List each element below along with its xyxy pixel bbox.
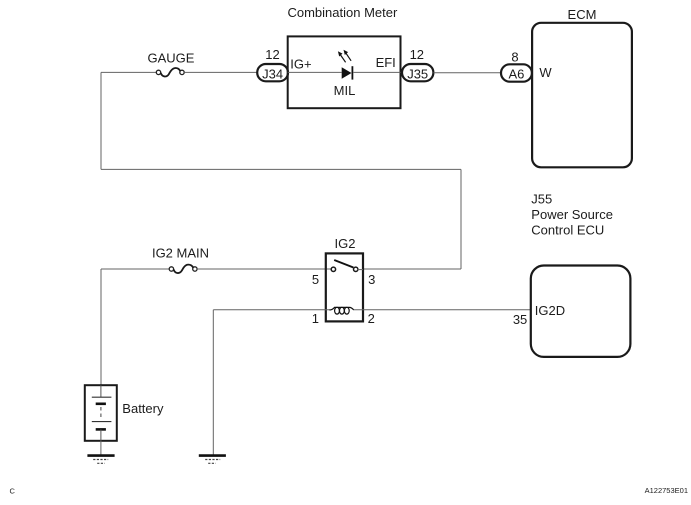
terminal label IG+ <box>290 56 311 71</box>
ECM title <box>568 7 597 22</box>
wire: coil wire left (to ground riser) <box>213 309 330 311</box>
label GAUGE <box>148 50 195 65</box>
svg-text:J55: J55 <box>531 192 552 207</box>
label Battery <box>122 401 164 416</box>
svg-text:EFI: EFI <box>376 55 396 70</box>
svg-text:A6: A6 <box>508 66 524 81</box>
wire: relay pin 3 to riser <box>363 268 461 270</box>
wire: top feed from left riser to fuse GAUGE <box>101 71 157 73</box>
svg-text:2: 2 <box>368 311 375 326</box>
svg-text:5: 5 <box>312 272 319 287</box>
svg-text:Control ECU: Control ECU <box>531 223 604 238</box>
terminal label W <box>539 65 552 80</box>
terminal label IG2D <box>535 303 565 318</box>
svg-text:J34: J34 <box>262 66 283 81</box>
ECM box <box>532 23 632 168</box>
svg-text:Battery: Battery <box>122 401 164 416</box>
wire: left riser top section <box>100 72 102 169</box>
IG2 relay title <box>335 236 356 251</box>
wire: battery riser (IG2 MAIN down to battery) <box>100 269 102 385</box>
connector J34 <box>257 64 288 81</box>
svg-text:Combination Meter: Combination Meter <box>287 5 397 20</box>
pin 12 label (J35) <box>410 47 424 62</box>
wire: LED to EFI side <box>353 71 400 73</box>
wire: coil to J55 IG2D <box>354 309 531 311</box>
pin 12 label (J34) <box>265 47 279 62</box>
svg-text:W: W <box>539 65 552 80</box>
fuse IG2 MAIN <box>169 265 197 273</box>
J55 title block <box>531 192 613 238</box>
relay IG2 box <box>326 253 363 321</box>
wire: inside meter, IG+ to LED <box>288 71 342 73</box>
wire: coil ground riser <box>212 310 214 455</box>
pin 5 label <box>312 272 319 287</box>
battery <box>85 385 117 441</box>
power source control ECU box J55 <box>531 266 631 357</box>
terminal label EFI <box>376 55 396 70</box>
svg-text:12: 12 <box>410 47 424 62</box>
figure number A122753E01 <box>645 486 688 495</box>
connector A6 <box>501 64 532 81</box>
page letter C <box>10 487 16 496</box>
Combination Meter title <box>287 5 397 20</box>
LED MIL (diode with arrows) <box>338 50 353 80</box>
svg-text:35: 35 <box>513 312 527 327</box>
pin 35 label <box>513 312 527 327</box>
pin 1 label <box>312 311 319 326</box>
relay switch contacts <box>331 260 358 271</box>
relay coil <box>330 307 354 314</box>
svg-text:C: C <box>10 487 16 496</box>
svg-text:J35: J35 <box>407 66 428 81</box>
svg-text:1: 1 <box>312 311 319 326</box>
svg-text:8: 8 <box>511 50 518 65</box>
wire: relay right contact to box edge <box>358 269 364 271</box>
svg-text:Power Source: Power Source <box>531 207 613 222</box>
fuse GAUGE <box>156 68 184 76</box>
svg-text:MIL: MIL <box>334 83 356 98</box>
wire: fuse IG2 MAIN to relay pin 5 <box>197 268 331 270</box>
pin 3 label <box>368 272 375 287</box>
wire: J35 to A6 <box>433 72 501 74</box>
label MIL <box>334 83 356 98</box>
label IG2 MAIN <box>152 245 209 260</box>
wire: battery to ground <box>100 441 102 455</box>
pin 2 label <box>368 311 375 326</box>
svg-text:ECM: ECM <box>568 7 597 22</box>
svg-text:GAUGE: GAUGE <box>148 50 195 65</box>
wire: fuse GAUGE to connector J34 <box>184 71 257 73</box>
svg-text:12: 12 <box>265 47 279 62</box>
combination meter box <box>288 36 401 108</box>
wire: middle horizontal bus <box>101 168 461 170</box>
ground (relay coil) <box>199 456 226 464</box>
wire: right riser down to relay contact <box>460 169 462 269</box>
pin 8 label (A6) <box>511 50 518 65</box>
svg-text:3: 3 <box>368 272 375 287</box>
svg-text:IG+: IG+ <box>290 56 311 71</box>
svg-text:IG2: IG2 <box>335 236 356 251</box>
svg-text:IG2 MAIN: IG2 MAIN <box>152 245 209 260</box>
wire: battery riser to fuse IG2 MAIN <box>101 268 169 270</box>
svg-text:A122753E01: A122753E01 <box>645 486 688 495</box>
svg-text:IG2D: IG2D <box>535 303 565 318</box>
connector J35 <box>402 64 433 81</box>
ground (battery) <box>87 456 114 464</box>
